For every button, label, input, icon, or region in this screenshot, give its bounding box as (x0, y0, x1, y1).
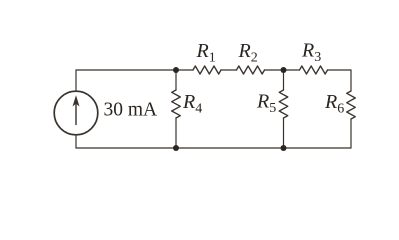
current source I1 circle (54, 91, 98, 135)
resistor R2 (237, 66, 265, 74)
wire R5 top lead (283, 70, 285, 90)
wire between R1 and R2 (221, 69, 237, 71)
current source arrow shaft (75, 102, 77, 125)
node dot bottom R5 (281, 145, 287, 151)
wire between R2 and R3 (265, 69, 300, 71)
wire left rail lower (75, 135, 77, 148)
wire R5 bottom lead (283, 118, 285, 148)
resistor R5 (279, 90, 288, 118)
wire right rail upper (350, 70, 352, 91)
wire left rail upper (75, 70, 77, 91)
wire top rail left segment (76, 69, 193, 71)
wire right rail lower (350, 119, 352, 148)
resistor R4 (172, 90, 181, 118)
node dot bottom R4 (173, 145, 179, 151)
node dot top R4 (173, 67, 179, 73)
current source arrowhead (73, 95, 80, 106)
resistor R1 (193, 66, 221, 74)
svg-text:30 mA: 30 mA (104, 100, 158, 121)
resistor R6 (347, 91, 356, 119)
resistor R3 (300, 66, 328, 74)
wire bottom rail (76, 147, 351, 149)
wire top rail right segment (328, 69, 352, 71)
node dot top R5 (281, 67, 287, 73)
wire R4 top lead (175, 70, 177, 90)
wire R4 bottom lead (175, 118, 177, 148)
